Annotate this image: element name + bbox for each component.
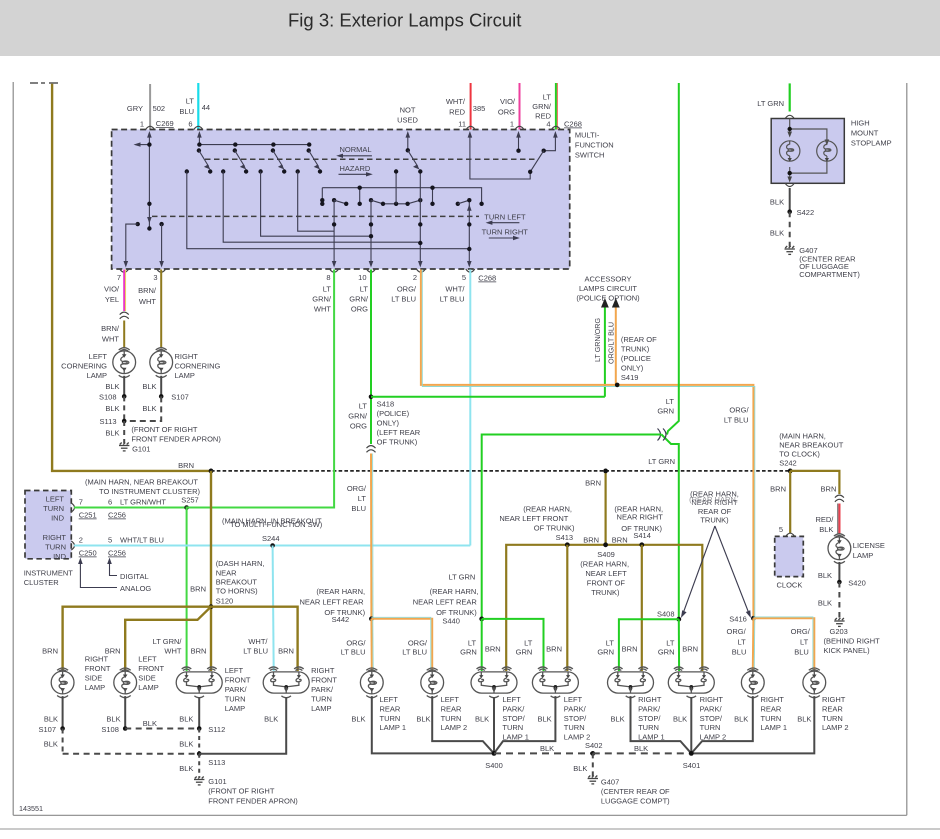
wire LT GRN/RED to pin 4 xyxy=(555,83,557,130)
high mount stoplamp box xyxy=(771,119,844,184)
svg-text:IND: IND xyxy=(53,552,67,561)
wire VIO/ORG to pin 1 xyxy=(519,83,521,130)
svg-text:S107: S107 xyxy=(171,393,189,402)
svg-text:ORG/: ORG/ xyxy=(729,406,749,415)
svg-text:BLK: BLK xyxy=(734,714,748,723)
hazard switch blade 4 xyxy=(307,142,311,146)
node S402 xyxy=(590,751,595,756)
svg-text:NORMAL: NORMAL xyxy=(340,145,372,154)
node S244 xyxy=(270,543,275,548)
switch pin 6 entry and hazard row bus xyxy=(198,133,200,145)
svg-text:KICK PANEL): KICK PANEL) xyxy=(824,646,871,655)
svg-text:STOP/: STOP/ xyxy=(700,714,723,723)
svg-text:(POLICE: (POLICE xyxy=(621,354,651,363)
wire BLK lamp1 to S107 xyxy=(62,696,64,728)
wire WHT/LT BLU S244 drop to lamp xyxy=(273,546,274,672)
connector bumps top pins xyxy=(146,126,155,129)
svg-text:S257: S257 xyxy=(181,496,199,505)
svg-text:LT BLU: LT BLU xyxy=(724,416,749,425)
svg-text:(POLICE): (POLICE) xyxy=(377,409,410,418)
svg-text:PARK/: PARK/ xyxy=(564,704,587,713)
license lamp xyxy=(828,534,851,564)
svg-text:S413: S413 xyxy=(556,533,574,542)
svg-text:S108: S108 xyxy=(99,393,117,402)
hazard switch blade 3 xyxy=(271,142,275,146)
svg-text:(DASH HARN,: (DASH HARN, xyxy=(216,559,265,568)
svg-text:S112: S112 xyxy=(208,725,225,734)
svg-text:BRN: BRN xyxy=(612,535,628,544)
stoplamp internal wiring xyxy=(790,119,827,181)
svg-text:RIGHT: RIGHT xyxy=(638,695,662,704)
switch contact to pin 7 xyxy=(136,222,140,226)
svg-text:BRN: BRN xyxy=(105,646,121,655)
svg-text:ORG: ORG xyxy=(498,108,515,117)
svg-text:SIDE: SIDE xyxy=(85,674,103,683)
wire ORG/LT BLU S442 branch to left rear turn lamp 2 xyxy=(371,619,432,671)
switch pin 4 entry and blade xyxy=(544,133,556,151)
svg-text:LUGGAGE COMPT): LUGGAGE COMPT) xyxy=(601,797,670,806)
wire BRN S242 to clock xyxy=(789,471,791,533)
svg-text:GRN: GRN xyxy=(460,648,477,657)
title bar xyxy=(0,0,940,56)
not used entry blade xyxy=(407,133,409,150)
svg-text:BLK: BLK xyxy=(351,714,365,723)
node S108 lower xyxy=(123,726,128,731)
svg-text:BRN: BRN xyxy=(546,645,562,654)
svg-text:REAR: REAR xyxy=(441,704,462,713)
wire BLK dashed S402 to S401 xyxy=(593,752,692,754)
svg-text:LT: LT xyxy=(360,285,369,294)
connector bump right turn ind pin 2 xyxy=(71,541,74,550)
svg-text:(POLICE OPTION): (POLICE OPTION) xyxy=(576,294,640,303)
hazard switch blade 2 xyxy=(233,142,237,146)
svg-text:HAZARD: HAZARD xyxy=(340,164,371,173)
node S413 with drop xyxy=(565,542,570,547)
svg-text:RED/: RED/ xyxy=(815,515,834,524)
svg-text:6: 6 xyxy=(188,120,192,129)
svg-text:GRN/: GRN/ xyxy=(348,412,368,421)
svg-text:C256: C256 xyxy=(108,549,126,558)
svg-text:BLK: BLK xyxy=(179,739,193,748)
lamp right front side xyxy=(51,668,74,698)
svg-text:S113: S113 xyxy=(208,758,225,767)
svg-text:ORG/: ORG/ xyxy=(346,638,366,647)
svg-text:C269: C269 xyxy=(156,119,174,128)
svg-text:11: 11 xyxy=(458,120,466,129)
node S442 xyxy=(369,616,374,621)
svg-text:OF TRUNK): OF TRUNK) xyxy=(324,608,365,617)
lamp left front park/turn xyxy=(176,667,222,698)
wire LT GRN S440 branch to park lamp 2 xyxy=(482,619,544,671)
svg-text:C268: C268 xyxy=(564,120,582,129)
svg-text:TURN RIGHT: TURN RIGHT xyxy=(482,227,529,236)
svg-text:WHT: WHT xyxy=(102,335,119,344)
hazard switch blade 1 xyxy=(197,142,201,146)
wire LT GRN long vertical with jog xyxy=(667,83,679,435)
wire WHT/RED 385 to pin 11 xyxy=(470,83,472,130)
turn blade left pair xyxy=(332,198,336,202)
wire BLK dashed S402 to G407 xyxy=(592,753,594,776)
node S422 xyxy=(787,209,792,214)
wire BLK dashed S107 to S113 horizontal xyxy=(63,753,200,755)
ground G407 upper xyxy=(785,246,795,254)
svg-text:OF TRUNK): OF TRUNK) xyxy=(436,608,477,617)
node S113 lower xyxy=(197,752,202,757)
svg-text:BLK: BLK xyxy=(770,229,784,238)
node S401 xyxy=(689,751,694,756)
node junction BRN bus left xyxy=(209,469,214,474)
wire LT GRN branch to S440 xyxy=(482,435,662,619)
svg-text:LT BLU: LT BLU xyxy=(243,646,268,655)
svg-text:TURN: TURN xyxy=(380,714,401,723)
svg-text:1: 1 xyxy=(140,120,144,129)
svg-text:S408: S408 xyxy=(657,610,675,619)
svg-text:COMPARTMENT): COMPARTMENT) xyxy=(799,270,860,279)
switch pin 1 VIO/ORG entry xyxy=(518,133,520,151)
svg-text:LT: LT xyxy=(186,97,195,106)
svg-text:BLK: BLK xyxy=(797,714,811,723)
svg-text:502: 502 xyxy=(153,104,166,113)
svg-text:LT GRN/WHT: LT GRN/WHT xyxy=(120,498,166,507)
lamp left rear turn 2 xyxy=(421,668,444,698)
svg-text:(REAR HARN,: (REAR HARN, xyxy=(689,495,738,504)
wire WHT/LT BLU pin 5 drop xyxy=(469,270,471,546)
node S409 xyxy=(603,542,608,547)
svg-text:BLK: BLK xyxy=(475,714,489,723)
svg-text:LAMP: LAMP xyxy=(225,704,245,713)
svg-text:RIGHT: RIGHT xyxy=(311,666,335,675)
svg-text:LT: LT xyxy=(737,637,746,646)
svg-text:LEFT: LEFT xyxy=(564,695,583,704)
svg-text:S422: S422 xyxy=(797,208,815,217)
svg-text:BLK: BLK xyxy=(179,714,193,723)
svg-text:NEAR: NEAR xyxy=(216,568,237,577)
svg-text:TRUNK): TRUNK) xyxy=(700,516,729,525)
svg-text:8: 8 xyxy=(326,273,330,282)
svg-text:S120: S120 xyxy=(216,596,234,605)
wire BRN park lamp feed rail xyxy=(506,545,702,671)
node S416 xyxy=(751,616,756,621)
svg-text:CLOCK: CLOCK xyxy=(777,581,803,590)
wire ORG/LT BLU pin 2 elbow to S416 xyxy=(421,270,754,619)
wire BLK dashed S420 to G203 xyxy=(838,582,840,619)
svg-text:4: 4 xyxy=(546,120,550,129)
stoplamp bulb right xyxy=(817,141,837,161)
svg-text:OF TRUNK): OF TRUNK) xyxy=(377,438,418,447)
svg-text:TURN: TURN xyxy=(761,714,782,723)
svg-text:BLK: BLK xyxy=(105,404,119,413)
svg-text:LT BLU: LT BLU xyxy=(402,648,427,657)
svg-text:BREAKOUT: BREAKOUT xyxy=(216,577,258,586)
multi-function switch U1 body xyxy=(112,130,570,270)
svg-text:LT: LT xyxy=(323,285,332,294)
svg-text:PARK/: PARK/ xyxy=(638,704,661,713)
switch wiper from pin 1 GRY xyxy=(136,133,150,229)
svg-text:S244: S244 xyxy=(262,534,280,543)
svg-text:(LEFT REAR: (LEFT REAR xyxy=(377,428,421,437)
svg-text:WHT/: WHT/ xyxy=(248,637,268,646)
svg-text:(MAIN HARN, NEAR BREAKOUT: (MAIN HARN, NEAR BREAKOUT xyxy=(85,478,198,487)
node S242 xyxy=(788,469,793,474)
wire BRN S242 right elbow to license xyxy=(790,471,839,494)
svg-text:10: 10 xyxy=(358,273,366,282)
wire BRN/WHT from pin 3 to right cornering lamp xyxy=(160,270,162,349)
svg-text:VIO/: VIO/ xyxy=(104,285,120,294)
connector bump stoplamp bottom xyxy=(785,183,794,186)
svg-text:STOP/: STOP/ xyxy=(638,714,661,723)
svg-text:PARK/: PARK/ xyxy=(700,704,723,713)
svg-text:TRUNK): TRUNK) xyxy=(591,588,620,597)
turn contact cup xyxy=(369,198,373,202)
svg-text:7: 7 xyxy=(117,273,121,282)
svg-text:LAMP 2: LAMP 2 xyxy=(441,723,468,732)
svg-text:BLK: BLK xyxy=(770,198,784,207)
connector bumps bottom pins xyxy=(120,269,129,272)
svg-text:FUNCTION: FUNCTION xyxy=(575,141,614,150)
svg-text:LT: LT xyxy=(543,93,552,102)
svg-text:Fig 3: Exterior Lamps Circuit: Fig 3: Exterior Lamps Circuit xyxy=(288,10,521,31)
lamp left front side xyxy=(114,668,137,698)
node S419 xyxy=(615,383,620,388)
svg-text:LEFT: LEFT xyxy=(89,352,108,361)
svg-text:(FRONT OF RIGHT: (FRONT OF RIGHT xyxy=(208,787,275,796)
svg-text:S107: S107 xyxy=(38,725,56,734)
ground G101 upper xyxy=(119,443,129,451)
svg-text:HIGH: HIGH xyxy=(851,119,870,128)
svg-text:STOP/: STOP/ xyxy=(564,714,587,723)
svg-text:BLK: BLK xyxy=(44,714,58,723)
svg-text:TRUNK): TRUNK) xyxy=(621,344,650,353)
svg-text:5: 5 xyxy=(108,536,112,545)
svg-text:WHT: WHT xyxy=(164,646,181,655)
svg-text:(REAR HARN,: (REAR HARN, xyxy=(523,504,572,513)
svg-text:BLK: BLK xyxy=(818,571,832,580)
switch pin 11 entry riser xyxy=(470,133,530,179)
node S408 xyxy=(676,617,681,622)
svg-text:(MAIN HARN,: (MAIN HARN, xyxy=(779,431,826,440)
switch vertical to pin 10 xyxy=(370,200,372,265)
svg-text:MULTI-: MULTI- xyxy=(575,131,600,140)
svg-text:G101: G101 xyxy=(208,777,226,786)
svg-text:BLK: BLK xyxy=(105,382,119,391)
svg-text:WHT: WHT xyxy=(139,297,156,306)
svg-text:LAMP: LAMP xyxy=(85,683,105,692)
svg-text:NEAR LEFT REAR: NEAR LEFT REAR xyxy=(413,597,478,606)
connector bump left turn ind pin 7 xyxy=(71,503,74,512)
svg-text:LAMPS CIRCUIT: LAMPS CIRCUIT xyxy=(579,284,637,293)
ground G203 xyxy=(834,618,844,626)
svg-text:GRN: GRN xyxy=(658,648,675,657)
svg-text:S409: S409 xyxy=(597,550,615,559)
wire BRN/WHT to left cornering lamp xyxy=(123,321,125,349)
svg-text:G101: G101 xyxy=(132,445,150,454)
svg-text:ORG/: ORG/ xyxy=(791,627,811,636)
node S108 xyxy=(122,394,127,399)
wire BLK S113 to lamp4 xyxy=(199,697,286,754)
svg-text:LT GRN: LT GRN xyxy=(448,573,475,582)
wire LT GRN S408 branch left to right park lamp 1 xyxy=(619,619,679,671)
inline connector on LT GRN branch xyxy=(658,429,667,441)
svg-text:TO CLOCK): TO CLOCK) xyxy=(779,449,820,458)
svg-text:LAMP 2: LAMP 2 xyxy=(822,723,849,732)
wire LT GRN S418 to accessory riser xyxy=(371,396,605,398)
svg-text:BLK: BLK xyxy=(44,739,58,748)
svg-text:WHT/LT BLU: WHT/LT BLU xyxy=(120,536,164,545)
svg-text:BLK: BLK xyxy=(143,719,157,728)
svg-text:LAMP: LAMP xyxy=(311,704,331,713)
svg-text:ORG/LT BLU: ORG/LT BLU xyxy=(607,322,616,364)
svg-text:G203: G203 xyxy=(830,627,848,636)
svg-text:S416: S416 xyxy=(729,615,747,624)
wire BLK lamp3 to S112 xyxy=(198,697,200,729)
wire BLK dashed S107 down xyxy=(62,729,64,754)
svg-text:INSTRUMENT: INSTRUMENT xyxy=(24,569,74,578)
svg-text:USED: USED xyxy=(397,116,418,125)
lamp right front park/turn xyxy=(263,667,309,698)
svg-text:S440: S440 xyxy=(442,616,460,625)
svg-text:OF TRUNK): OF TRUNK) xyxy=(621,524,662,533)
svg-text:S420: S420 xyxy=(848,578,866,587)
svg-text:(REAR OF: (REAR OF xyxy=(621,335,657,344)
svg-text:LEFT: LEFT xyxy=(380,695,399,704)
svg-text:BLK: BLK xyxy=(142,382,156,391)
svg-text:LT GRN/: LT GRN/ xyxy=(153,637,183,646)
svg-text:143551: 143551 xyxy=(19,804,43,813)
svg-text:GRN/: GRN/ xyxy=(532,102,552,111)
svg-text:S419: S419 xyxy=(621,373,639,382)
wire BLK dashed S400 to S402 xyxy=(494,752,593,754)
svg-text:NEAR RIGHT: NEAR RIGHT xyxy=(617,513,664,522)
svg-text:BLK: BLK xyxy=(538,714,552,723)
svg-text:ORG/: ORG/ xyxy=(408,638,428,647)
svg-text:CORNERING: CORNERING xyxy=(61,362,107,371)
svg-text:TURN: TURN xyxy=(638,723,659,732)
svg-text:BLU: BLU xyxy=(179,107,194,116)
ground G407 lower xyxy=(588,776,598,784)
svg-text:(REAR HARN,: (REAR HARN, xyxy=(430,587,479,596)
wire LT GRN/WHT cluster to S257 xyxy=(74,507,334,509)
svg-text:REAR: REAR xyxy=(380,704,401,713)
wire BRN long feed left side xyxy=(52,84,211,471)
wire BLK lamp12 elbow to S401 xyxy=(691,696,814,753)
node S418 xyxy=(369,395,374,400)
svg-text:BRN: BRN xyxy=(622,645,638,654)
wire BRN S120 right run to right front park lamp xyxy=(211,607,298,671)
svg-text:LT BLU: LT BLU xyxy=(391,295,416,304)
node S257 xyxy=(184,505,189,510)
svg-text:S418: S418 xyxy=(377,400,395,409)
wire BLK lamp8 elbow to S400 xyxy=(494,696,555,753)
svg-text:ONLY): ONLY) xyxy=(377,419,400,428)
clock box xyxy=(775,536,804,576)
svg-text:LT: LT xyxy=(666,638,675,647)
svg-text:TURN: TURN xyxy=(311,694,332,703)
svg-text:ANALOG: ANALOG xyxy=(120,584,151,593)
svg-text:MOUNT: MOUNT xyxy=(851,129,879,138)
svg-text:FRONT: FRONT xyxy=(311,676,337,685)
svg-text:BLK: BLK xyxy=(634,744,648,753)
svg-text:S400: S400 xyxy=(485,761,503,770)
svg-text:LT GRN: LT GRN xyxy=(757,99,784,108)
wire LT GRN/ORG accessory arrow riser xyxy=(604,306,606,397)
svg-text:FRONT: FRONT xyxy=(85,664,111,673)
svg-text:BLU: BLU xyxy=(732,648,747,657)
wire BLK dashed S108 to S112 xyxy=(125,728,199,730)
svg-text:BRN: BRN xyxy=(278,646,294,655)
node S112 xyxy=(197,726,202,731)
switch contact to pin 3 xyxy=(159,222,163,226)
node S440 xyxy=(479,617,484,622)
svg-text:BRN: BRN xyxy=(682,645,698,654)
svg-text:RIGHT: RIGHT xyxy=(85,655,109,664)
svg-text:LT: LT xyxy=(800,637,809,646)
wire LT GRN/WHT pin 8 drop xyxy=(187,270,335,672)
svg-text:DIGITAL: DIGITAL xyxy=(120,572,149,581)
svg-text:1: 1 xyxy=(510,120,514,129)
svg-text:SWITCH: SWITCH xyxy=(575,151,605,160)
wire BLK lamp5 elbow to S400 xyxy=(372,696,494,753)
svg-text:ONLY): ONLY) xyxy=(621,363,644,372)
svg-text:LAMP: LAMP xyxy=(87,371,107,380)
svg-text:LEFT: LEFT xyxy=(441,695,460,704)
svg-text:REAR: REAR xyxy=(822,704,843,713)
svg-text:REAR OF: REAR OF xyxy=(698,507,732,516)
svg-text:LT GRN: LT GRN xyxy=(648,457,675,466)
svg-text:TURN: TURN xyxy=(225,694,246,703)
svg-text:YEL: YEL xyxy=(105,295,119,304)
svg-text:BRN: BRN xyxy=(585,479,601,488)
svg-text:LEFT: LEFT xyxy=(502,695,521,704)
svg-text:(CENTER REAR OF: (CENTER REAR OF xyxy=(601,787,670,796)
wire BRN S120 left run to right front side lamp xyxy=(63,607,211,671)
lamp right park/stop/turn 2 xyxy=(668,667,714,698)
svg-text:IND: IND xyxy=(51,514,65,523)
wire ORG/LT BLU accessory arrow riser to S419 xyxy=(615,306,617,385)
pointer arrow to S408 xyxy=(683,526,715,614)
svg-text:7: 7 xyxy=(79,498,83,507)
svg-text:PARK/: PARK/ xyxy=(502,704,525,713)
svg-text:LAMP: LAMP xyxy=(138,683,158,692)
svg-text:BRN/: BRN/ xyxy=(101,324,120,333)
svg-text:S108: S108 xyxy=(101,725,119,734)
wire ORG/LT BLU S416 branch to rear turn lamp 2 xyxy=(753,618,814,671)
svg-text:TURN LEFT: TURN LEFT xyxy=(484,212,526,221)
svg-text:PARK/: PARK/ xyxy=(225,685,248,694)
wire LT GRN/ORG pin 10 drop to S418 xyxy=(370,270,372,445)
svg-text:LT BLU: LT BLU xyxy=(341,648,366,657)
wire GRY 502 to pin 1 C269 xyxy=(149,84,151,130)
svg-text:ORG: ORG xyxy=(350,422,367,431)
svg-text:5: 5 xyxy=(779,525,783,534)
svg-text:TURN: TURN xyxy=(441,714,462,723)
svg-text:C250: C250 xyxy=(79,549,97,558)
wire BLK lamp11 elbow to S401 xyxy=(691,696,753,753)
wire ORG/LT BLU connector to S442 xyxy=(370,454,372,619)
svg-text:NEAR BREAKOUT: NEAR BREAKOUT xyxy=(779,440,844,449)
lamp right rear turn 1 xyxy=(741,668,764,698)
svg-text:S401: S401 xyxy=(683,761,701,770)
svg-text:BLK: BLK xyxy=(819,525,833,534)
inline connector license feed xyxy=(835,495,844,502)
wire BLK below license lamp xyxy=(838,562,840,582)
wire BLK dashed S112 to S113 xyxy=(198,729,200,754)
svg-text:BRN: BRN xyxy=(821,485,837,494)
inline connector on S442 feed xyxy=(367,446,376,453)
node S120 xyxy=(209,604,214,609)
wire BLK lamp6 elbow to S400 xyxy=(432,696,494,753)
lamp right rear turn 2 xyxy=(803,668,826,698)
svg-text:LT: LT xyxy=(359,402,368,411)
